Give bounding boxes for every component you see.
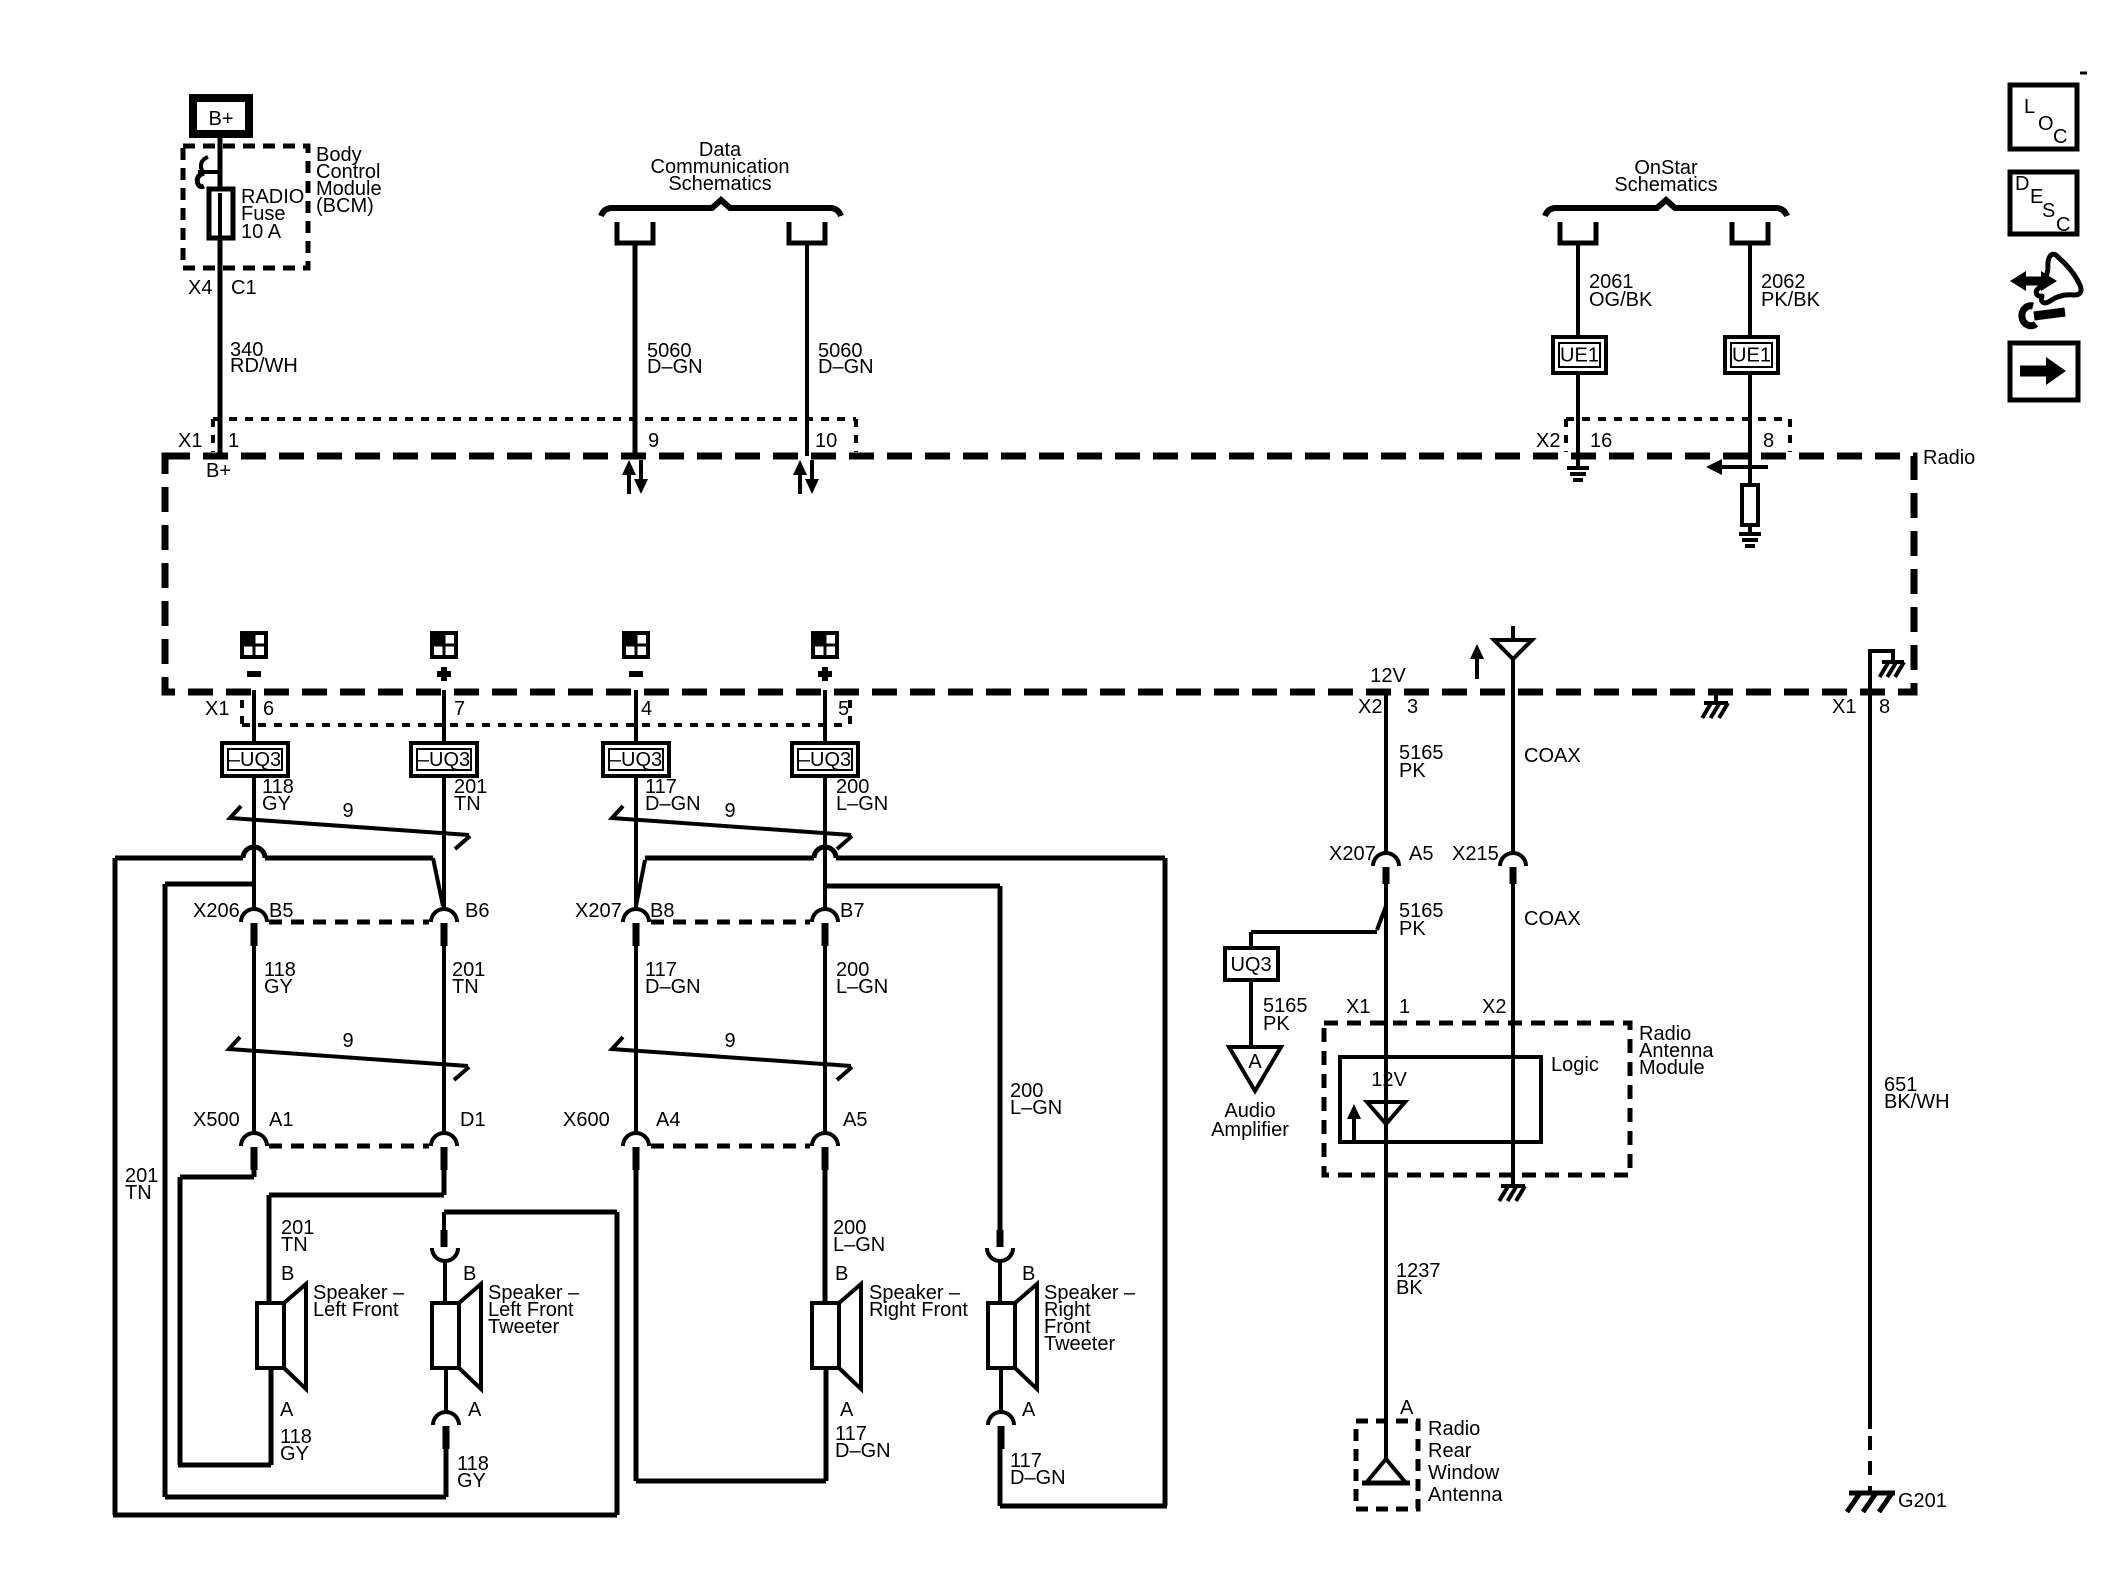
Data Communication Schematics heading + brace [601, 139, 841, 216]
svg-text:X215: X215 [1452, 843, 1499, 865]
svg-text:D–GN: D–GN [645, 793, 701, 815]
svg-text:UE1: UE1 [1560, 345, 1599, 367]
svg-text:X1: X1 [1832, 696, 1856, 718]
Radio dashed box [165, 447, 1975, 692]
connector X1 row (bottom, pins 6/7/4/5) [205, 698, 850, 725]
wire 201 TN (B6 to D1) [444, 946, 485, 1133]
svg-text:Right Front: Right Front [869, 1299, 968, 1321]
svg-text:COAX: COAX [1524, 908, 1581, 930]
svg-text:Rear: Rear [1428, 1440, 1472, 1462]
Radio Antenna Module dashed box [1324, 1023, 1714, 1175]
rear window antenna symbol [1362, 1459, 1410, 1483]
svg-text:D1: D1 [460, 1109, 486, 1131]
svg-text:X2: X2 [1536, 430, 1560, 452]
X600 dashed connector line [651, 1144, 810, 1149]
svg-text:A: A [1248, 1051, 1262, 1073]
coax to radio antenna module X2 [1482, 884, 1581, 1057]
svg-text:TN: TN [125, 1182, 152, 1204]
fuse clip hook [197, 157, 220, 187]
wire 200 L-GN (B7 to A5) [825, 946, 888, 1133]
power feed B+ box [193, 98, 249, 134]
svg-text:X500: X500 [193, 1109, 240, 1131]
connector cup to data bus (right) [789, 222, 825, 243]
svg-text:10 A: 10 A [241, 221, 282, 243]
svg-text:D–GN: D–GN [647, 356, 703, 378]
wire 5060 D-GN (pin 10) [807, 243, 874, 456]
svg-text:GY: GY [262, 793, 291, 815]
svg-text:UQ3: UQ3 [1230, 954, 1271, 976]
svg-text:L–GN: L–GN [833, 1234, 885, 1256]
wire 118 GY (B5 to A1) [254, 946, 296, 1133]
wire 118 GY (A1 to LF speaker A) [178, 1170, 312, 1465]
svg-text:8: 8 [1879, 696, 1890, 718]
option -UQ3 box (pin4) [603, 743, 669, 776]
svg-text:9: 9 [342, 1030, 353, 1052]
option UQ3 box (amplifier) [1225, 948, 1278, 980]
wire 5165 PK below X207 [1346, 884, 1444, 1057]
wire 340 RD/WH from fuse to radio X1-1 [188, 238, 298, 456]
svg-text:X2: X2 [1482, 996, 1506, 1018]
svg-text:X600: X600 [563, 1109, 610, 1131]
svg-text:L–GN: L–GN [836, 976, 888, 998]
wire through logic box [1386, 1057, 1513, 1142]
wire radio pin4 [634, 690, 638, 743]
in-line connector RF tweeter A [988, 1368, 1066, 1489]
wire 118 GY [254, 776, 294, 909]
wire 2062 PK/BK [1750, 243, 1821, 337]
svg-text:X206: X206 [193, 900, 240, 922]
svg-text:–UQ3: –UQ3 [610, 749, 662, 771]
wire 5165 PK to amplifier [1251, 980, 1308, 1047]
svg-text:L–GN: L–GN [1010, 1097, 1062, 1119]
svg-text:–UQ3: –UQ3 [418, 749, 470, 771]
svg-text:B: B [835, 1263, 848, 1285]
speaker output symbol LF- [242, 633, 266, 674]
wire 201 TN [444, 776, 487, 909]
svg-text:GY: GY [457, 1470, 486, 1492]
svg-text:4: 4 [641, 698, 652, 720]
svg-text:S: S [2042, 200, 2055, 222]
option -UQ3 box (pin7) [411, 743, 477, 776]
in-line connector X600 A5 [812, 1109, 867, 1170]
twisted pair symbol 9 (left upper) [230, 800, 470, 849]
svg-text:X1: X1 [178, 430, 202, 452]
svg-text:C: C [2053, 126, 2067, 148]
svg-text:X207: X207 [1329, 843, 1376, 865]
logic box [1340, 1054, 1599, 1142]
in-line connector X207 B8 [575, 900, 674, 946]
wire radio pin5 [823, 690, 827, 743]
svg-text:G201: G201 [1898, 1490, 1947, 1512]
svg-text:Left Front: Left Front [313, 1299, 399, 1321]
svg-text:PK: PK [1263, 1013, 1290, 1035]
wire 1237 BK [1386, 1142, 1441, 1459]
svg-text:Window: Window [1428, 1462, 1500, 1484]
svg-text:A5: A5 [1409, 843, 1433, 865]
svg-text:3: 3 [1407, 696, 1418, 718]
svg-text:B5: B5 [269, 900, 293, 922]
svg-text:PK/BK: PK/BK [1761, 289, 1821, 311]
svg-text:C1: C1 [231, 277, 257, 299]
svg-text:A: A [1022, 1399, 1036, 1421]
radio antenna symbol + arrow [1470, 626, 1532, 679]
svg-text:B: B [281, 1263, 294, 1285]
connector cup to OnStar (right) [1732, 222, 1768, 243]
12V antenna node inside logic [1347, 1069, 1407, 1142]
svg-text:B: B [463, 1263, 476, 1285]
icon continue arrow box [2010, 343, 2078, 400]
speaker - right front [812, 1282, 968, 1389]
icon diagnostic (arrows + wrench) [2010, 254, 2081, 326]
svg-text:B8: B8 [650, 900, 674, 922]
svg-text:PK: PK [1399, 760, 1426, 782]
X500 dashed connector line [269, 1144, 429, 1149]
wire 651 BK/WH from radio X1-8 [1832, 690, 1950, 1429]
svg-text:12V: 12V [1371, 1069, 1407, 1091]
in-line connector X600 A4 [563, 1109, 680, 1170]
in-line connector X206 B6 [431, 900, 489, 946]
connector cup to data bus (left) [617, 222, 653, 243]
fuse RADIO Fuse 10 A [209, 186, 304, 243]
svg-text:X4: X4 [188, 277, 212, 299]
svg-text:–UQ3: –UQ3 [229, 749, 281, 771]
twisted pair symbol 9 (right upper) [612, 800, 852, 849]
svg-text:9: 9 [724, 800, 735, 822]
OnStar Schematics heading + brace [1545, 157, 1787, 216]
svg-text:RD/WH: RD/WH [230, 355, 298, 377]
svg-text:Module: Module [1639, 1057, 1705, 1079]
speaker - left front [257, 1282, 405, 1389]
svg-text:9: 9 [342, 800, 353, 822]
svg-text:X1: X1 [205, 698, 229, 720]
load resistor + arrow inside radio at X2-8 [1706, 456, 1768, 546]
connector X1 row (top, pins 1/9/10) [178, 419, 856, 452]
svg-text:BK/WH: BK/WH [1884, 1091, 1950, 1113]
svg-text:GY: GY [280, 1443, 309, 1465]
icon DESC box [2010, 172, 2077, 236]
svg-text:A: A [468, 1399, 482, 1421]
icon LOC box [2010, 85, 2077, 149]
svg-text:1: 1 [1399, 996, 1410, 1018]
svg-text:Radio: Radio [1428, 1418, 1480, 1440]
svg-text:Antenna: Antenna [1428, 1484, 1503, 1506]
wire 5060 D-GN (pin 9) [635, 243, 703, 456]
serial data arrows (pin 10) [793, 460, 819, 494]
svg-text:D: D [2015, 173, 2029, 195]
wire 117 D-GN branch loop to RF tweeter A [636, 847, 1167, 1506]
X207 dashed connector line [651, 920, 810, 925]
option UE1 box (left) [1553, 337, 1606, 373]
svg-text:D–GN: D–GN [818, 356, 874, 378]
audio amplifier symbol A [1211, 1047, 1289, 1141]
svg-text:A4: A4 [656, 1109, 680, 1131]
speaker - left front tweeter [432, 1282, 580, 1389]
wire 117 D-GN [636, 776, 701, 909]
dashed continuation to G201 [1868, 1436, 1872, 1491]
svg-text:L: L [2024, 96, 2035, 118]
svg-text:16: 16 [1590, 430, 1612, 452]
ground inside radio at X2-16 [1567, 456, 1589, 480]
in-line connector X206 B5 [193, 900, 293, 946]
svg-text:D–GN: D–GN [1010, 1467, 1066, 1489]
speaker output symbol LF+ [432, 633, 456, 681]
wire 201 TN (D1 to LF speaker B) [269, 1170, 444, 1303]
svg-text:Schematics: Schematics [1614, 174, 1717, 196]
ground G201 [1847, 1490, 1947, 1512]
svg-text:O: O [2038, 113, 2054, 135]
in-line connector X207 A5 (amp feed) [1329, 843, 1433, 884]
X206 dashed connector line [269, 920, 429, 925]
wire 118 GY branch to LF tweeter A [165, 884, 446, 1497]
svg-text:Tweeter: Tweeter [1044, 1333, 1115, 1355]
node B+ inside radio [206, 460, 231, 482]
wire 117 D-GN (B8 to A4) [636, 946, 701, 1133]
svg-text:9: 9 [648, 430, 659, 452]
svg-text:6: 6 [263, 698, 274, 720]
serial data arrows (pin 9) [622, 460, 648, 494]
svg-text:B7: B7 [840, 900, 864, 922]
in-line connector RF tweeter B [987, 1230, 1035, 1303]
option -UQ3 box (pin5) [792, 743, 858, 776]
Body Control Module (BCM) dashed box [183, 144, 382, 268]
speaker output symbol RF+ [813, 633, 837, 681]
wire: B+ to BCM fuse [218, 134, 223, 195]
svg-text:X207: X207 [575, 900, 622, 922]
in-line connector X500 D1 [431, 1109, 486, 1170]
wire to radio X2-8 [1748, 373, 1752, 456]
svg-text:PK: PK [1399, 918, 1426, 940]
svg-text:X1: X1 [1346, 996, 1370, 1018]
radio 12V node [1370, 665, 1406, 687]
wire 2061 OG/BK [1578, 243, 1653, 337]
wire to radio X2-16 [1576, 373, 1580, 456]
svg-text:Amplifier: Amplifier [1211, 1119, 1289, 1141]
svg-text:GY: GY [264, 976, 293, 998]
coax wire from radio antenna [1513, 659, 1581, 853]
svg-text:9: 9 [724, 1030, 735, 1052]
svg-text:B+: B+ [206, 460, 231, 482]
svg-text:Schematics: Schematics [668, 173, 771, 195]
radio X1-8 internal ground link [1870, 651, 1904, 690]
connector cup to OnStar (left) [1560, 222, 1596, 243]
svg-text:C: C [2056, 214, 2070, 236]
svg-text:TN: TN [454, 793, 481, 815]
wire 200 L-GN [825, 776, 888, 909]
twisted pair symbol 9 (right lower) [612, 1030, 852, 1080]
in-line connector X207 B7 [812, 900, 864, 946]
svg-text:X2: X2 [1358, 696, 1382, 718]
branch to UQ3 amplifier option [1251, 906, 1386, 948]
svg-text:(BCM): (BCM) [316, 195, 374, 217]
svg-text:A: A [840, 1399, 854, 1421]
module coax ground [1499, 1142, 1525, 1201]
svg-text:COAX: COAX [1524, 745, 1581, 767]
svg-text:A: A [280, 1399, 294, 1421]
Radio Rear Window Antenna dashed box [1356, 1418, 1503, 1509]
wire 5165 PK from radio X2-3 [1358, 690, 1444, 853]
wire 201 TN branch loop to LF tweeter B [113, 847, 617, 1515]
in-line connector LF tweeter A [433, 1368, 489, 1492]
in-line connector X500 A1 [193, 1109, 293, 1170]
svg-text:BK: BK [1396, 1277, 1423, 1299]
svg-text:A1: A1 [269, 1109, 293, 1131]
svg-text:8: 8 [1763, 430, 1774, 452]
svg-text:UE1: UE1 [1732, 345, 1771, 367]
wire 200 L-GN (A5 to RF speaker B) [825, 1170, 885, 1303]
svg-text:10: 10 [815, 430, 837, 452]
wire 117 D-GN (A4 to RF speaker A) [636, 1170, 891, 1481]
chassis ground on radio case [1702, 692, 1728, 718]
speaker output symbol RF- [624, 633, 648, 674]
option UE1 box (right) [1725, 337, 1778, 373]
svg-text:12V: 12V [1370, 665, 1406, 687]
svg-text:D–GN: D–GN [835, 1440, 891, 1462]
speaker - right front tweeter [988, 1282, 1136, 1389]
twisted pair symbol 9 (left lower) [229, 1030, 469, 1080]
connector X2 row (top, pins 16/8) [1536, 419, 1790, 452]
svg-text:–UQ3: –UQ3 [799, 749, 851, 771]
svg-text:B: B [1022, 1263, 1035, 1285]
svg-text:D–GN: D–GN [645, 976, 701, 998]
svg-text:1: 1 [228, 430, 239, 452]
svg-text:TN: TN [452, 976, 479, 998]
svg-text:Logic: Logic [1551, 1054, 1599, 1076]
svg-text:A5: A5 [843, 1109, 867, 1131]
stray mark [2080, 72, 2087, 75]
svg-text:B+: B+ [208, 108, 233, 130]
svg-text:L–GN: L–GN [836, 793, 888, 815]
in-line connector LF tweeter B [432, 1212, 476, 1303]
svg-text:OG/BK: OG/BK [1589, 289, 1653, 311]
svg-text:7: 7 [454, 698, 465, 720]
svg-text:A: A [1400, 1397, 1414, 1419]
svg-text:Tweeter: Tweeter [488, 1316, 559, 1338]
wire radio pin6 [252, 690, 256, 743]
wire radio pin7 [442, 690, 446, 743]
svg-text:5: 5 [838, 698, 849, 720]
option -UQ3 box (pin6) [222, 743, 288, 776]
svg-text:Radio: Radio [1923, 447, 1975, 469]
in-line connector X215 [1452, 843, 1526, 884]
svg-text:B6: B6 [465, 900, 489, 922]
svg-text:TN: TN [281, 1234, 308, 1256]
wire 200 L-GN branch to RF tweeter B [825, 886, 1062, 1230]
